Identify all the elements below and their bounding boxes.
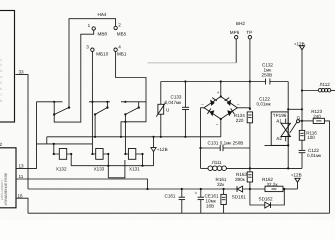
- svg-text:0,01мк: 0,01мк: [307, 153, 322, 158]
- node dot S2a: [91, 101, 93, 103]
- wire relay lower bus: [37, 143, 93, 145]
- svg-text:ВН2: ВН2: [236, 21, 245, 26]
- diode D1 top-left: [210, 98, 217, 106]
- svg-text:БЛОК КОММУТ.: БЛОК КОММУТ.: [0, 179, 4, 200]
- diode SD161 (series in bus): [237, 186, 242, 192]
- node dot C131 line at bridge-left vertical: [199, 147, 201, 149]
- switch S1 lever: [54, 108, 68, 115]
- wire bus1 faint (y=62.9): [148, 62, 237, 64]
- wire bus2 (y=81.5): [161, 81, 266, 83]
- svg-text:А1: А1: [276, 119, 282, 124]
- wire S2 fixed stub: [106, 102, 108, 108]
- svg-text:SD162: SD162: [259, 197, 273, 202]
- wire S3 fixed stub: [138, 102, 140, 108]
- resistor R162 (series in bus): [265, 186, 283, 191]
- wire X131 right lead: [136, 154, 143, 166]
- wire bus 33 horizontal (y=189): [28, 188, 237, 190]
- wire HA4 top bus: [69, 19, 116, 108]
- node dot S3: [124, 101, 126, 103]
- box bottom A2 lead extends left: [265, 144, 289, 146]
- svg-text:+12В: +12В: [157, 147, 168, 152]
- wire varistor branch: [160, 82, 162, 105]
- svg-text:МВ8: МВ8: [98, 32, 108, 37]
- svg-text:+12В: +12В: [291, 173, 302, 178]
- pin 4: [114, 48, 117, 51]
- svg-text:НА4: НА4: [98, 12, 107, 17]
- wire gate line: [300, 120, 314, 122]
- svg-text:250В: 250В: [262, 73, 273, 78]
- switch S1 common wire: [37, 101, 63, 103]
- diode D2 top-right: [225, 98, 232, 106]
- capacitor C161: [181, 189, 183, 197]
- capacitor C133: [184, 82, 186, 108]
- relay coil X132: [54, 144, 60, 154]
- wire TP net down through R163: [249, 148, 251, 172]
- diode D3 bottom-left: [207, 109, 214, 117]
- relay coil X131: [128, 149, 135, 160]
- wire bus169: [226, 167, 302, 169]
- relay coil X133: [96, 149, 103, 160]
- capacitor C122 right: [301, 140, 303, 150]
- wire R134 bottom to C131 line: [249, 123, 251, 148]
- svg-text:~: ~: [237, 102, 240, 107]
- wire MP6 down: [235, 39, 237, 63]
- svg-text:100: 100: [307, 135, 315, 140]
- svg-text:Л111: Л111: [212, 160, 222, 165]
- svg-text:7.: 7.: [0, 93, 3, 97]
- svg-text:МБ5: МБ5: [117, 32, 127, 37]
- svg-text:SD161: SD161: [232, 195, 246, 200]
- svg-text:Х131: Х131: [129, 167, 140, 172]
- svg-text:МБ10: МБ10: [96, 52, 108, 57]
- wire R123 right to edge vertical: [324, 121, 329, 213]
- svg-text:МР6: МР6: [230, 30, 240, 35]
- svg-text:1.: 1.: [0, 58, 3, 62]
- svg-text:Л112: Л112: [320, 82, 331, 87]
- switch S3 common wire: [121, 101, 146, 103]
- node dot pin3 at X133 lead: [91, 153, 93, 155]
- wire pin16 to bottom bus: [16, 198, 28, 213]
- svg-text:С161: С161: [165, 194, 176, 199]
- bridge + output: [220, 82, 222, 97]
- svg-text:3: 3: [86, 44, 89, 49]
- capacitor C132 (series on bus2): [265, 79, 267, 85]
- bridge - output: [220, 119, 222, 137]
- svg-text:+: +: [217, 90, 220, 95]
- svg-text:16: 16: [18, 193, 24, 198]
- svg-text:Х133: Х133: [94, 167, 105, 172]
- svg-text:Х132: Х132: [56, 167, 67, 172]
- node dot S2b: [106, 101, 108, 103]
- switch S2 common wire: [89, 101, 110, 103]
- wire pin13: [16, 102, 37, 169]
- inductor L112: [302, 90, 318, 92]
- svg-text:8.: 8.: [0, 99, 3, 103]
- resistor R163: [247, 172, 252, 182]
- svg-text:220: 220: [236, 118, 244, 123]
- svg-text:0,01мк: 0,01мк: [257, 101, 272, 106]
- module A (left box, clipped by image edge): [0, 11, 15, 123]
- node dot S2 on bus: [94, 136, 96, 138]
- module 2 (lower left box): [0, 148, 16, 208]
- resistor R134: [247, 112, 252, 123]
- wire S2 pivot down to bus: [94, 114, 96, 136]
- svg-text:U: U: [166, 108, 169, 113]
- wire TP down: [249, 39, 251, 110]
- wire S1 pivot feed: [53, 102, 55, 115]
- node dot pin11 joins bus: [146, 188, 148, 190]
- switch S2 lever: [95, 108, 107, 115]
- wire bus189 right part: [243, 188, 265, 190]
- svg-text:33: 33: [19, 70, 25, 75]
- svg-text:13: 13: [19, 164, 25, 169]
- svg-text:УПРАВЛЕНИЕ РЕЛЕ: УПРАВЛЕНИЕ РЕЛЕ: [4, 172, 8, 205]
- capacitor C131 (series): [201, 147, 221, 149]
- node dot X132 feed: [53, 143, 55, 145]
- pin 2: [114, 26, 117, 29]
- svg-text:0,047мк: 0,047мк: [165, 100, 183, 105]
- wire relay top bus (line A y=136.8): [47, 136, 221, 138]
- triac module TP196 box: [271, 112, 288, 145]
- pin 1: [92, 27, 95, 30]
- svg-text:32к: 32к: [217, 182, 225, 187]
- diode D4 bottom-right: [227, 109, 234, 117]
- wire X132 right lead: [67, 154, 72, 166]
- faint pin text inside box 2: [0, 172, 8, 205]
- svg-text:ТР196: ТР196: [273, 113, 287, 118]
- svg-text:−: −: [216, 122, 219, 127]
- wire net 33: box to vertical: [15, 75, 28, 189]
- wire S1 pivot loop to pin1 net: [54, 115, 81, 123]
- svg-text:~: ~: [201, 102, 204, 107]
- svg-text:5.: 5.: [0, 81, 3, 85]
- svg-text:3.: 3.: [0, 69, 3, 73]
- svg-text:1: 1: [88, 23, 91, 28]
- wire pin11: [16, 179, 148, 189]
- wire jog to lower bus: [46, 137, 48, 144]
- wire relay return bus y=165.7: [71, 165, 153, 167]
- svg-text:4.: 4.: [0, 75, 3, 79]
- switch S3 lever: [125, 108, 138, 115]
- svg-text:16В: 16В: [206, 203, 214, 208]
- svg-text:2: 2: [118, 23, 121, 28]
- node dot S1: [53, 101, 55, 103]
- svg-text:6.: 6.: [0, 87, 3, 91]
- wire bottom bus: [28, 212, 330, 214]
- svg-text:ТР: ТР: [246, 30, 252, 35]
- node dot X131 left lead: [124, 153, 126, 155]
- svg-text:4: 4: [118, 44, 121, 49]
- faint margin text left edge: [0, 58, 3, 103]
- diode SD162 bypass loop: [250, 189, 265, 205]
- node dot S1 fixed contact (from HA4 pin2): [68, 106, 70, 108]
- svg-text:2.: 2.: [0, 63, 3, 67]
- wire X133 to X131 link: [108, 160, 125, 178]
- resistor R161: [223, 189, 225, 194]
- wire A1 link to +12V line: [288, 108, 302, 110]
- wire C132 right corner down: [287, 82, 289, 169]
- inductor L111: [201, 167, 208, 169]
- wire pin4 path to X131: [116, 51, 146, 136]
- wire pin1: [81, 30, 94, 115]
- svg-text:+: +: [195, 190, 198, 195]
- resistor R116: [301, 121, 303, 130]
- svg-text:МБ1: МБ1: [117, 52, 127, 57]
- svg-text:11: 11: [19, 174, 24, 179]
- triac symbol: [281, 119, 297, 142]
- rectifier bridge diamond: [204, 97, 237, 120]
- power +12V left arrow: [153, 137, 155, 148]
- wire pin3 down to X133: [92, 51, 95, 154]
- wire X133 right lead: [103, 154, 108, 178]
- resistor R123: [313, 118, 324, 123]
- svg-text:390к: 390к: [235, 177, 246, 182]
- varistor RU: [158, 104, 164, 114]
- pin 3: [91, 48, 94, 51]
- svg-text:С131 0,1мк 250В: С131 0,1мк 250В: [208, 141, 244, 146]
